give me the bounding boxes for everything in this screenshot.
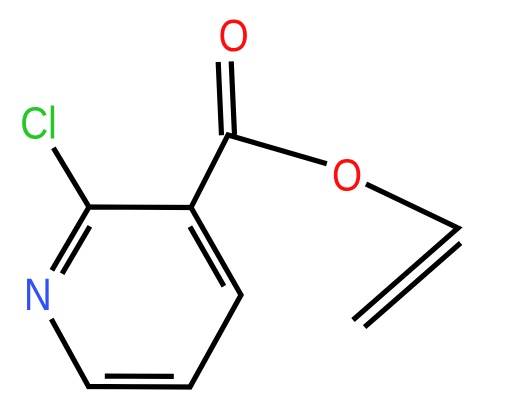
svg-text:O: O [332,150,362,200]
svg-text:Cl: Cl [20,98,57,148]
svg-text:O: O [219,11,249,61]
svg-text:N: N [24,269,52,319]
